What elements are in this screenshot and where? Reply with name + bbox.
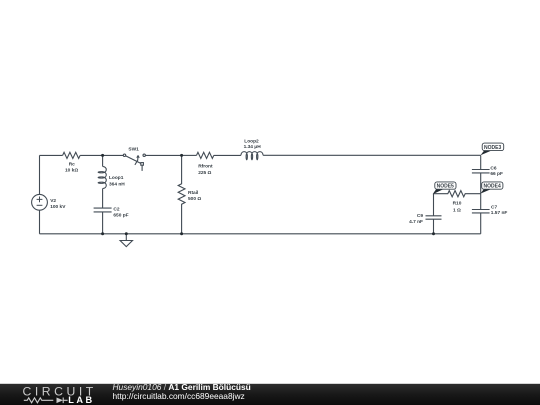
junction C9 bottom	[432, 232, 435, 235]
svg-text:1.57 nF: 1.57 nF	[491, 210, 508, 216]
source V2	[32, 194, 48, 210]
svg-text:NODE5: NODE5	[437, 184, 454, 190]
svg-text:Loop2: Loop2	[244, 139, 259, 145]
svg-text:500 Ω: 500 Ω	[188, 196, 201, 202]
svg-text:C2: C2	[113, 207, 119, 213]
svg-text:C9: C9	[417, 213, 423, 219]
svg-text:NODE4: NODE4	[484, 184, 501, 190]
svg-text:10 kΩ: 10 kΩ	[65, 168, 78, 174]
node label NODE3	[481, 143, 504, 155]
wire C9 to bottom rail	[433, 219, 435, 233]
wire node A to SW1	[103, 154, 124, 156]
svg-text:364 nH: 364 nH	[109, 182, 125, 188]
wire right vertical top: corner to C6	[480, 155, 482, 169]
svg-text:Rc: Rc	[69, 162, 75, 168]
svg-text:Rfront: Rfront	[198, 164, 213, 170]
junction ground	[125, 232, 128, 235]
svg-text:66 pF: 66 pF	[490, 171, 503, 177]
capacitor C2	[94, 208, 112, 212]
wire node A down to Loop1	[102, 155, 104, 166]
wire V2 bottom stub	[39, 210, 41, 234]
svg-text:225 Ω: 225 Ω	[198, 170, 211, 176]
junction Rtail bottom	[180, 232, 183, 235]
inductor Loop2	[241, 152, 263, 160]
svg-text:1.34 μH: 1.34 μH	[244, 144, 262, 150]
wire Rfront to Loop2	[214, 154, 241, 156]
logo resistor-diode glyph	[24, 398, 68, 404]
resistor R10	[434, 191, 481, 197]
capacitor C6	[472, 170, 490, 173]
resistor Rc	[63, 152, 81, 158]
wire V2 top stub	[39, 155, 41, 194]
svg-text:V2: V2	[50, 198, 56, 204]
wire Rc to node A	[80, 154, 103, 156]
switch SW1	[123, 154, 145, 171]
wire bottom rail	[40, 233, 481, 235]
wire C6 to NODE4 point	[480, 173, 482, 209]
node label NODE5	[433, 182, 456, 194]
svg-text:LAB: LAB	[68, 395, 94, 405]
node B junction	[180, 154, 183, 157]
svg-text:SW1: SW1	[128, 147, 139, 153]
svg-text:4.7 nF: 4.7 nF	[409, 219, 423, 225]
wire Loop1 to C2	[102, 189, 104, 208]
svg-text:R10: R10	[453, 201, 462, 207]
wire C9 branch vertical	[433, 194, 435, 216]
svg-text:NODE3: NODE3	[484, 145, 501, 151]
svg-text:C7: C7	[491, 205, 497, 211]
svg-text:100 kV: 100 kV	[50, 204, 66, 210]
component labels	[50, 139, 507, 225]
wire C2 to bottom rail	[102, 212, 104, 234]
capacitor C7	[472, 210, 490, 213]
ground	[120, 234, 132, 247]
resistor Rtail	[178, 155, 185, 233]
resistor Rfront	[197, 152, 214, 158]
capacitor C9	[426, 216, 442, 219]
junction dots	[101, 154, 435, 235]
svg-text:Loop1: Loop1	[109, 175, 124, 181]
wire SW1 to node B	[145, 154, 181, 156]
junction C2 bottom	[101, 232, 104, 235]
wire Loop2 to right corner	[263, 154, 481, 156]
node A junction	[101, 154, 104, 157]
svg-text:Rtail: Rtail	[188, 190, 198, 196]
wire C7 to bottom rail	[480, 213, 482, 234]
node label NODE4	[480, 182, 503, 194]
wire node B to Rfront	[182, 154, 197, 156]
svg-text:1 Ω: 1 Ω	[453, 208, 461, 214]
svg-text:http://circuitlab.com/cc689eea: http://circuitlab.com/cc689eeaa8jwz	[113, 391, 245, 401]
svg-text:C6: C6	[490, 166, 496, 172]
wire top rail left: V2 to Rc	[40, 154, 63, 156]
svg-text:650 pF: 650 pF	[113, 212, 128, 218]
inductor Loop1	[98, 166, 106, 188]
